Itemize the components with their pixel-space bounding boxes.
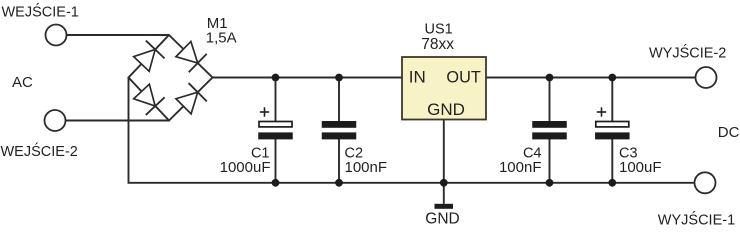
wire negative rail	[129, 78, 695, 183]
voltage regulator US1 body	[402, 57, 486, 120]
plus sign of C1	[260, 107, 269, 116]
svg-text:US1: US1	[425, 21, 453, 37]
svg-text:WEJŚCIE-1: WEJŚCIE-1	[2, 2, 79, 20]
svg-text:WYJŚCIE-1: WYJŚCIE-1	[658, 211, 735, 229]
svg-text:78xx: 78xx	[421, 36, 454, 53]
capacitor C1 electrolytic plates	[258, 122, 293, 140]
svg-text:100nF: 100nF	[499, 159, 542, 176]
capacitor C3 electrolytic plates	[595, 122, 630, 140]
wire GND pin of US1	[443, 120, 445, 204]
svg-text:1000uF: 1000uF	[220, 159, 271, 176]
wire input 1	[67, 34, 170, 36]
svg-text:WYJŚCIE-2: WYJŚCIE-2	[649, 43, 726, 61]
junction C4 top	[546, 74, 554, 82]
wire input 2	[66, 120, 170, 122]
diode D1 upper-left of bridge	[132, 41, 164, 73]
capacitor C4 plates	[532, 121, 567, 139]
terminal WEJSCIE-1	[46, 25, 67, 46]
svg-text:DC: DC	[718, 124, 740, 141]
svg-text:1,5A: 1,5A	[206, 30, 237, 47]
wire C2 branch	[338, 78, 340, 183]
junction GND rail	[440, 179, 448, 187]
capacitor C2 plates	[322, 121, 357, 139]
junction C3 top	[608, 74, 616, 82]
svg-text:OUT: OUT	[446, 68, 480, 86]
diode D3 lower-left of bridge	[132, 83, 165, 115]
wire positive rail to IN	[213, 77, 403, 79]
ground symbol bar	[435, 204, 454, 209]
terminal WYJSCIE-2	[696, 67, 717, 88]
diode D4 lower-right of bridge	[174, 83, 206, 115]
svg-text:IN: IN	[409, 68, 426, 87]
wire C1 branch	[275, 78, 277, 183]
terminal WYJSCIE-1	[695, 172, 716, 193]
svg-text:100nF: 100nF	[345, 159, 388, 176]
diode D2 upper-right of bridge	[174, 40, 206, 72]
junction C4 bottom	[546, 179, 554, 187]
plus sign of C3	[597, 107, 606, 116]
junction C1 top	[272, 74, 280, 82]
svg-text:GND: GND	[427, 100, 465, 119]
wire C4 branch	[549, 78, 551, 183]
svg-text:WEJŚCIE-2: WEJŚCIE-2	[1, 142, 78, 160]
svg-text:GND: GND	[425, 211, 459, 228]
junction C2 top	[335, 74, 343, 82]
terminal WEJSCIE-2	[45, 110, 66, 131]
junction C3 bottom	[608, 179, 616, 187]
junction C2 bottom	[335, 179, 343, 187]
bridge rectifier M1 diamond frame	[129, 35, 213, 121]
svg-text:AC: AC	[12, 74, 33, 91]
wire positive rail OUT to output	[486, 77, 696, 79]
wire C3 branch	[611, 78, 613, 183]
svg-text:100uF: 100uF	[619, 159, 662, 176]
junction C1 bottom	[272, 179, 280, 187]
